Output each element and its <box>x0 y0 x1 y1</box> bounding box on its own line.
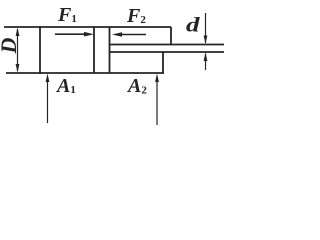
dimension D bottom arrowhead <box>16 64 20 73</box>
cylinder bottom wall <box>6 72 164 74</box>
force F2 arrow shaft <box>119 34 146 36</box>
dimension d lower extension <box>205 54 207 71</box>
cylinder right-end upper wall <box>170 27 172 45</box>
cylinder right-end lower wall <box>162 52 164 73</box>
force F1 arrow shaft <box>55 33 87 35</box>
leader line A2 <box>156 79 158 125</box>
rod top line <box>110 44 224 46</box>
dimension d down arrowhead <box>204 36 208 45</box>
leader line A1 <box>47 79 49 123</box>
cylinder left wall <box>39 26 41 74</box>
dimension d up arrowhead <box>204 53 208 62</box>
piston left face <box>93 27 95 73</box>
leader A1 arrowhead <box>46 74 50 83</box>
cylinder top wall <box>4 26 171 28</box>
force F1 arrowhead <box>84 32 94 37</box>
piston right face <box>109 27 111 73</box>
svg-text:D: D <box>0 37 21 54</box>
svg-text:d: d <box>186 13 200 37</box>
rod bottom line <box>110 51 224 53</box>
dimension d upper extension <box>205 13 207 43</box>
dimension D top arrowhead <box>16 28 20 37</box>
force F2 arrowhead <box>112 32 122 37</box>
leader A2 arrowhead <box>155 74 159 83</box>
dimension D line <box>17 29 19 71</box>
